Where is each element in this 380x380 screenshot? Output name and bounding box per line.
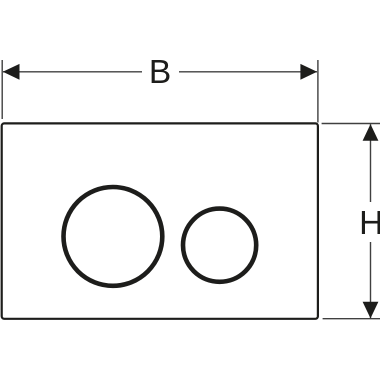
large flush button circle xyxy=(64,187,163,286)
dimension H arrowhead top xyxy=(363,124,379,141)
dimension B line left segment xyxy=(3,71,142,73)
svg-text:B: B xyxy=(149,54,171,91)
small flush button circle xyxy=(183,209,256,282)
dimension H extension line top xyxy=(322,123,380,125)
dimension B arrowhead left xyxy=(3,64,20,80)
dimension B arrowhead right xyxy=(300,64,317,80)
dimension H line lower segment xyxy=(370,242,372,318)
dimension H arrowhead bottom xyxy=(363,302,379,319)
svg-text:H: H xyxy=(359,205,380,242)
dimension H line upper segment xyxy=(370,124,372,202)
dimension B extension line right xyxy=(317,60,319,123)
dimension B line right segment xyxy=(179,71,317,73)
dimension B extension line left xyxy=(1,60,3,119)
flush plate outline xyxy=(2,123,318,318)
dimension H extension line bottom xyxy=(323,318,380,320)
